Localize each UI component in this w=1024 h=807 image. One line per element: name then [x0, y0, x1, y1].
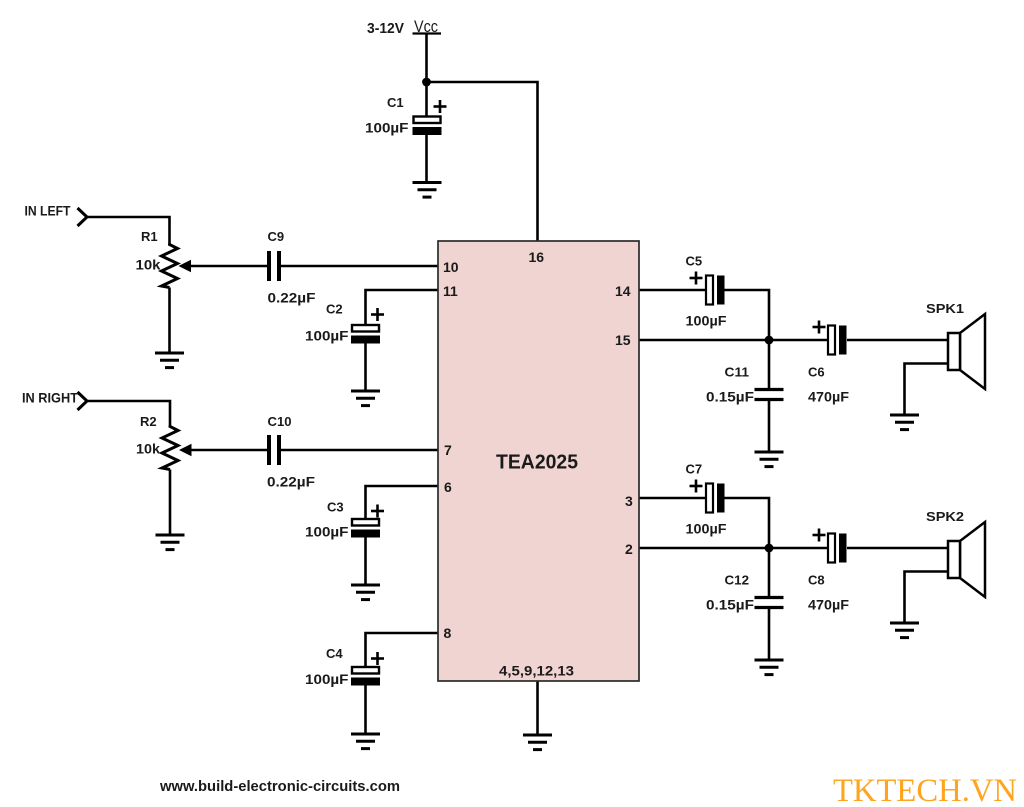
- svg-text:R1: R1: [141, 229, 158, 244]
- svg-text:IN LEFT: IN LEFT: [25, 203, 71, 219]
- svg-text:0.15µF: 0.15µF: [706, 390, 754, 405]
- svg-text:3: 3: [625, 493, 633, 509]
- svg-text:TEA2025: TEA2025: [496, 452, 578, 474]
- svg-text:0.22µF: 0.22µF: [267, 475, 315, 490]
- svg-text:C8: C8: [808, 573, 825, 588]
- svg-text:10k: 10k: [136, 442, 161, 457]
- svg-text:10: 10: [443, 259, 459, 275]
- svg-text:2: 2: [625, 541, 633, 557]
- svg-text:0.15µF: 0.15µF: [706, 598, 754, 613]
- svg-text:14: 14: [615, 283, 631, 299]
- svg-text:C11: C11: [725, 365, 750, 380]
- svg-text:100µF: 100µF: [305, 672, 349, 687]
- svg-text:C5: C5: [686, 254, 703, 269]
- svg-text:100µF: 100µF: [686, 314, 727, 329]
- svg-text:Vcc: Vcc: [414, 18, 438, 36]
- svg-text:C6: C6: [808, 365, 825, 380]
- svg-text:C1: C1: [387, 95, 404, 110]
- svg-text:100µF: 100µF: [305, 329, 349, 344]
- svg-text:100µF: 100µF: [305, 525, 349, 540]
- svg-text:C3: C3: [327, 500, 344, 515]
- svg-text:470µF: 470µF: [808, 598, 849, 613]
- svg-text:7: 7: [444, 442, 452, 458]
- svg-text:TKTECH.VN: TKTECH.VN: [833, 773, 1017, 807]
- svg-text:C2: C2: [326, 302, 343, 317]
- svg-text:0.22µF: 0.22µF: [268, 291, 316, 306]
- svg-text:16: 16: [529, 249, 545, 265]
- svg-text:SPK1: SPK1: [926, 301, 964, 316]
- svg-text:470µF: 470µF: [808, 390, 849, 405]
- svg-text:8: 8: [444, 625, 452, 641]
- svg-text:100µF: 100µF: [686, 522, 727, 537]
- svg-text:C10: C10: [268, 414, 292, 429]
- svg-text:4,5,9,12,13: 4,5,9,12,13: [499, 663, 574, 679]
- svg-text:C9: C9: [268, 229, 285, 244]
- svg-text:R2: R2: [140, 414, 157, 429]
- svg-text:15: 15: [615, 332, 631, 348]
- svg-text:6: 6: [444, 479, 452, 495]
- svg-text:SPK2: SPK2: [926, 509, 964, 524]
- svg-text:C7: C7: [686, 462, 703, 477]
- svg-text:10k: 10k: [136, 258, 162, 273]
- svg-text:C4: C4: [326, 646, 343, 661]
- svg-text:3-12V: 3-12V: [367, 20, 404, 37]
- svg-text:www.build-electronic-circuits.: www.build-electronic-circuits.com: [159, 778, 400, 795]
- svg-text:C12: C12: [725, 573, 750, 588]
- svg-text:IN RIGHT: IN RIGHT: [22, 390, 78, 406]
- svg-text:100µF: 100µF: [365, 121, 409, 136]
- svg-text:11: 11: [443, 283, 458, 299]
